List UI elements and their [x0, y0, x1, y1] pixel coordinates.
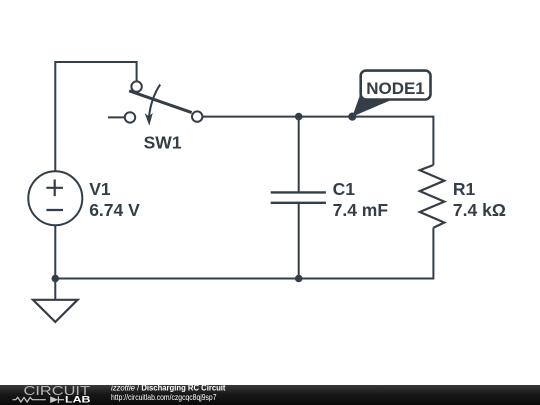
svg-text:7.4 mF: 7.4 mF: [333, 200, 389, 220]
voltage source V1 body circle: [28, 171, 82, 225]
wire: ground stub below junction: [54, 279, 56, 300]
ground symbol: [33, 300, 78, 322]
wire: V1 negative terminal down to ground rail: [54, 225, 56, 278]
footer bar: [0, 385, 540, 405]
svg-text:SW1: SW1: [144, 133, 182, 153]
node NODE1 junction dot: [348, 113, 356, 121]
svg-text:6.74 V: 6.74 V: [89, 200, 140, 220]
wire: stub on SW1 unused throw: [108, 116, 125, 118]
wire: R1 bottom lead: [432, 228, 434, 280]
wire: C1 top lead: [298, 117, 300, 193]
svg-text:7.4 kΩ: 7.4 kΩ: [453, 200, 506, 220]
junction dot at C1 top / node NODE1 rail: [295, 113, 303, 121]
NODE1 callout tail: [352, 95, 390, 117]
resistor R1 zigzag body: [420, 165, 445, 228]
CircuitLab logo resistor-diode squiggle: [13, 396, 65, 403]
switch SW1 actuation arrow: [145, 85, 161, 126]
svg-text:LAB: LAB: [65, 394, 91, 405]
capacitor C1 top plate: [271, 191, 326, 193]
NODE1 callout box: [361, 71, 431, 100]
svg-text:V1: V1: [89, 179, 111, 199]
capacitor C1 bottom plate: [271, 202, 326, 204]
wire: R1 top lead: [432, 116, 434, 165]
svg-text:C1: C1: [333, 179, 356, 199]
svg-text:R1: R1: [453, 179, 476, 199]
voltage source V1 minus sign: [46, 209, 63, 211]
junction dot at V1 negative / ground: [52, 275, 60, 283]
svg-text:izzottie / Discharging RC Circ: izzottie / Discharging RC Circuit: [111, 382, 226, 392]
wire: bottom ground rail: [55, 278, 433, 280]
switch SW1 pin 2 terminal circle: [192, 111, 202, 121]
switch SW1 unused throw terminal circle: [125, 112, 135, 122]
wire: V1 positive terminal up and across to SW1 pin 1: [55, 62, 136, 172]
switch SW1 pin 1 terminal circle: [131, 81, 141, 91]
voltage source V1 plus sign: [46, 180, 63, 197]
svg-text:NODE1: NODE1: [366, 79, 425, 98]
wire: C1 bottom lead: [298, 203, 300, 279]
svg-text:http://circuitlab.com/czgcqc8q: http://circuitlab.com/czgcqc8qj9sp7: [111, 392, 217, 402]
junction dot at C1 bottom: [295, 275, 303, 283]
switch SW1 blade: [129, 91, 192, 113]
wire: SW1 pin 2 across top rail to R1: [203, 116, 434, 118]
